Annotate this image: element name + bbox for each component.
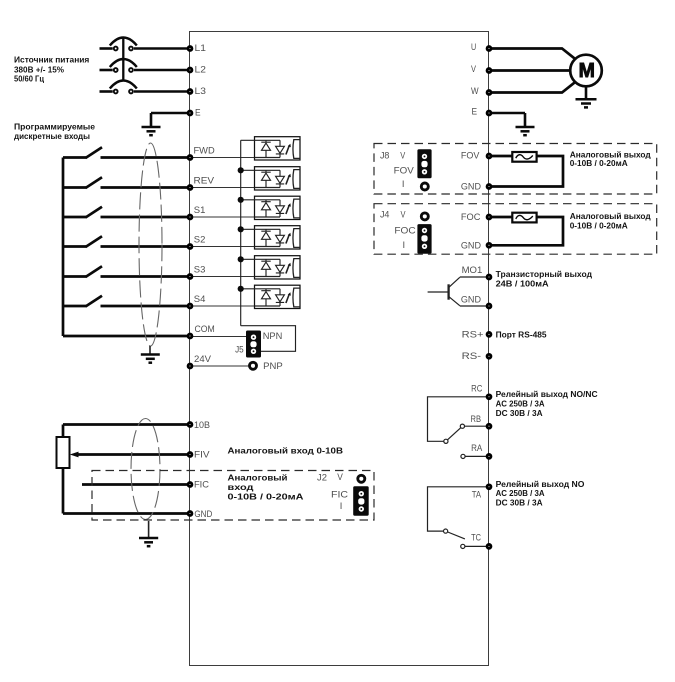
svg-text:COM: COM xyxy=(195,324,215,335)
svg-text:0-10В / 0-20мА: 0-10В / 0-20мА xyxy=(570,158,629,168)
svg-text:дискретные входы: дискретные входы xyxy=(14,131,90,141)
svg-text:J5: J5 xyxy=(235,344,244,355)
optocoupler OC-S2 xyxy=(241,226,300,249)
wire FIV with wiper arrow xyxy=(77,453,190,456)
svg-text:U: U xyxy=(471,42,476,53)
optocoupler OC-REV xyxy=(241,167,300,190)
breaker QF1 mechanical link xyxy=(122,38,124,81)
svg-text:FOV: FOV xyxy=(461,150,480,161)
terminal E xyxy=(188,111,192,115)
svg-text:RB: RB xyxy=(471,414,482,425)
svg-text:REV: REV xyxy=(194,175,215,186)
wire RA stub xyxy=(465,455,489,457)
terminal FOV xyxy=(487,154,491,158)
svg-text:DC 30В / 3А: DC 30В / 3А xyxy=(496,498,544,508)
wire motor ground stub xyxy=(585,86,588,98)
terminal RC xyxy=(487,395,491,399)
terminal COM xyxy=(188,334,192,338)
svg-text:V: V xyxy=(471,64,477,75)
node opto bus junction S2 xyxy=(238,226,244,232)
dashed box J4 analog output xyxy=(374,204,657,255)
jumper J4 xyxy=(417,213,431,254)
wire W to motor xyxy=(489,82,575,92)
svg-text:FWD: FWD xyxy=(194,145,215,156)
relay K2 NO xyxy=(428,487,490,549)
wire S4 xyxy=(101,305,191,308)
svg-text:FOC: FOC xyxy=(394,226,415,237)
wire 10B xyxy=(63,423,190,426)
terminal 10B xyxy=(188,423,192,427)
svg-text:FOV: FOV xyxy=(394,165,415,176)
pin PNP xyxy=(250,362,257,369)
svg-text:L3: L3 xyxy=(195,86,206,97)
svg-text:TC: TC xyxy=(471,532,481,543)
switch SW-S3 xyxy=(63,275,87,278)
breaker QF1 pole 3 xyxy=(114,90,118,94)
wire FOV load loop xyxy=(489,156,563,187)
wire E right xyxy=(489,113,525,126)
svg-text:FIC: FIC xyxy=(194,480,209,491)
wire V to motor xyxy=(489,69,570,72)
wire E left xyxy=(151,113,190,126)
terminal TC xyxy=(487,544,491,548)
terminal FWD xyxy=(188,156,192,160)
svg-text:Программируемые: Программируемые xyxy=(14,122,95,132)
wire S1 xyxy=(101,216,191,219)
svg-text:FIV: FIV xyxy=(194,450,210,461)
breaker QF1 pole 1 xyxy=(114,47,118,51)
breaker QF1 pole 2 xyxy=(114,68,118,72)
transistor Q1 open collector xyxy=(428,277,489,306)
terminal FIC xyxy=(188,483,192,487)
svg-text:J8: J8 xyxy=(380,150,390,161)
svg-text:FIC: FIC xyxy=(331,490,348,501)
switch SW-REV xyxy=(63,186,87,189)
svg-text:J2: J2 xyxy=(317,472,327,483)
svg-text:MO1: MO1 xyxy=(462,265,483,276)
svg-text:NPN: NPN xyxy=(263,331,283,342)
svg-text:L2: L2 xyxy=(195,65,206,76)
relay K1 NO/NC xyxy=(428,397,490,459)
svg-text:S4: S4 xyxy=(194,294,206,305)
terminal L3 xyxy=(188,90,192,94)
terminal GND-a2 xyxy=(487,243,491,247)
terminal RS- xyxy=(487,354,491,358)
relay K2 NO contact xyxy=(461,544,465,548)
svg-text:50/60 Гц: 50/60 Гц xyxy=(14,74,45,84)
svg-text:вход: вход xyxy=(228,482,255,492)
terminal MO1 xyxy=(487,275,491,279)
wire shield stub 2 xyxy=(148,521,150,537)
svg-text:GND: GND xyxy=(461,182,481,193)
optocoupler OC-S3 xyxy=(241,256,300,279)
wire opto common bus xyxy=(240,140,242,325)
node opto bus junction REV xyxy=(238,167,244,173)
terminal REV xyxy=(188,186,192,190)
wire TA route xyxy=(428,487,490,531)
dashed box analog input xyxy=(92,471,374,521)
ground motor xyxy=(576,99,597,107)
svg-text:0-10В / 0-20мА: 0-10В / 0-20мА xyxy=(570,221,629,231)
wire REV xyxy=(101,186,191,189)
ground shield 1 xyxy=(141,355,160,363)
wire FOC load loop xyxy=(489,217,563,245)
svg-text:S2: S2 xyxy=(194,234,206,245)
svg-text:M: M xyxy=(579,60,595,82)
switch SW-S4 xyxy=(63,305,87,308)
terminal FOC xyxy=(487,215,491,219)
svg-text:24В / 100мА: 24В / 100мА xyxy=(496,278,550,288)
terminal RA xyxy=(487,454,491,458)
svg-text:V: V xyxy=(401,209,407,220)
svg-text:10B: 10B xyxy=(194,420,210,431)
svg-text:RA: RA xyxy=(471,443,483,454)
relay K1 NO contact xyxy=(461,454,465,458)
terminal RB xyxy=(487,424,491,428)
svg-text:W: W xyxy=(471,86,479,97)
svg-text:GND: GND xyxy=(461,240,481,251)
relay K1 NC contact xyxy=(460,424,464,428)
relay K1 blade xyxy=(448,428,461,440)
terminal 24V xyxy=(188,364,192,368)
svg-text:RC: RC xyxy=(471,384,482,395)
wire L1 left stub xyxy=(100,47,113,50)
terminal GND-a1 xyxy=(487,185,491,189)
svg-text:Источник питания: Источник питания xyxy=(14,55,89,65)
optocoupler OC-S1 xyxy=(241,196,300,219)
jumper J5 xyxy=(246,331,261,358)
relay K2 blade xyxy=(448,532,465,539)
terminal E-out xyxy=(487,111,491,115)
node opto bus junction S3 xyxy=(238,256,244,262)
svg-text:Релейный выход NO/NC: Релейный выход NO/NC xyxy=(496,389,599,399)
svg-text:V: V xyxy=(400,150,406,161)
terminal FIV xyxy=(188,453,192,457)
wire COM xyxy=(63,335,190,338)
svg-text:L1: L1 xyxy=(195,43,206,54)
optocoupler OC-S4 xyxy=(241,285,300,308)
wire pot top xyxy=(62,425,65,438)
svg-text:I: I xyxy=(340,501,343,512)
wire bus to J5 NPN loop xyxy=(241,326,296,352)
svg-text:RS-: RS- xyxy=(462,351,482,362)
wire L3 left stub xyxy=(100,90,113,93)
switch SW-FWD xyxy=(63,156,87,159)
terminal GND xyxy=(188,512,192,516)
wire FIC xyxy=(82,483,190,486)
terminal S1 xyxy=(188,215,192,219)
terminal GND-t xyxy=(487,304,491,308)
svg-text:I: I xyxy=(403,240,406,251)
terminal U xyxy=(487,47,491,51)
switch SW-S2 xyxy=(63,245,87,248)
relay K1 pivot xyxy=(444,439,448,443)
wire shield stub xyxy=(149,346,151,354)
svg-text:GND: GND xyxy=(194,509,212,520)
wire RB stub xyxy=(465,425,489,427)
wire pot bottom xyxy=(62,468,65,514)
jumper J2 xyxy=(353,475,369,515)
wire S2 xyxy=(101,245,191,248)
ground shield 2 xyxy=(139,538,158,546)
cable shield oval 1 xyxy=(139,143,162,346)
terminal S2 xyxy=(188,245,192,249)
svg-text:I: I xyxy=(402,179,405,190)
wire L3 to terminal xyxy=(134,90,190,93)
switch SW-S1 xyxy=(63,216,87,219)
terminal RS+ xyxy=(487,332,491,336)
terminal L1 xyxy=(188,47,192,51)
node opto bus junction S1 xyxy=(238,197,244,203)
svg-text:S1: S1 xyxy=(194,205,206,216)
meter load FOV xyxy=(512,152,536,162)
svg-text:Аналоговый: Аналоговый xyxy=(228,472,288,482)
motor M1 xyxy=(570,55,602,87)
relay K2 pivot xyxy=(444,529,448,533)
svg-text:24V: 24V xyxy=(194,354,212,365)
wire U to motor xyxy=(489,49,575,59)
wire FWD xyxy=(101,156,191,159)
wire RC route xyxy=(428,397,490,442)
svg-text:E: E xyxy=(472,106,478,117)
svg-text:TA: TA xyxy=(472,489,482,500)
inverter main block U0 xyxy=(190,32,489,666)
terminal S4 xyxy=(188,304,192,308)
potentiometer RP1 xyxy=(57,437,70,468)
svg-text:DC 30В / 3А: DC 30В / 3А xyxy=(496,408,544,418)
svg-text:AC 250В / 3А: AC 250В / 3А xyxy=(496,488,546,498)
wire L1 to terminal xyxy=(134,47,190,50)
svg-text:0-10В / 0-20мА: 0-10В / 0-20мА xyxy=(228,491,305,501)
meter load FOC xyxy=(512,213,536,223)
ground E left xyxy=(142,127,161,135)
dashed box J8 analog output xyxy=(374,144,657,195)
svg-text:RS+: RS+ xyxy=(462,330,484,341)
wire discrete left bus xyxy=(62,158,65,337)
svg-text:GND: GND xyxy=(461,294,481,305)
cable shield oval 2 xyxy=(131,419,160,520)
ground E right xyxy=(516,127,535,135)
wire L2 to terminal xyxy=(134,69,190,72)
svg-text:S3: S3 xyxy=(194,264,206,275)
wire GND analog xyxy=(63,512,190,515)
terminal L2 xyxy=(188,68,192,72)
svg-text:PNP: PNP xyxy=(263,361,283,372)
terminal V xyxy=(487,69,491,73)
svg-text:Порт RS-485: Порт RS-485 xyxy=(496,329,547,339)
svg-text:V: V xyxy=(337,472,343,483)
jumper J8 xyxy=(417,149,431,190)
svg-text:J4: J4 xyxy=(380,209,390,220)
wire TC stub xyxy=(465,545,489,547)
terminal TA xyxy=(487,485,491,489)
node opto bus junction S4 xyxy=(238,286,244,292)
svg-text:Аналоговый вход 0-10В: Аналоговый вход 0-10В xyxy=(228,446,344,456)
terminal S3 xyxy=(188,275,192,279)
svg-text:E: E xyxy=(195,108,201,119)
wire L2 left stub xyxy=(100,69,113,72)
terminal W xyxy=(487,91,491,95)
svg-text:FOC: FOC xyxy=(461,212,481,223)
optocoupler OC-FWD xyxy=(241,137,300,160)
wire 24V xyxy=(190,365,250,367)
wire S3 xyxy=(101,275,191,278)
